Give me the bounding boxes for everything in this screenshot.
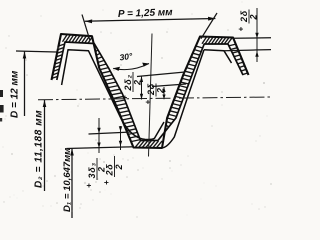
band inner boundary	[57, 42, 243, 141]
D1 dimension line	[71, 149, 73, 219]
fraction 2delta/2 (middle)	[144, 83, 166, 105]
svg-text:2δ: 2δ	[146, 83, 156, 96]
scan edge smudge 2	[0, 105, 4, 113]
D dimension line	[24, 52, 26, 117]
svg-text:3δ₃: 3δ₃	[87, 162, 97, 178]
fraction 2delta/2 (top right)	[237, 10, 259, 32]
V3 dimension line 2delta/2 (top right)	[256, 8, 258, 62]
centerline of groove	[149, 34, 153, 157]
D2 dimension line	[44, 100, 46, 191]
svg-text:+: +	[102, 180, 111, 185]
P right extension line (flank extension)	[201, 13, 217, 39]
line1: crest band top level extended right	[233, 37, 271, 39]
nominal thread profile	[62, 50, 164, 140]
thread profile tolerance band hatching	[52, 35, 248, 148]
VB dimension line 2delta/2	[163, 87, 165, 99]
30deg arc	[113, 64, 149, 70]
line2: nominal crest D level extended right	[224, 50, 271, 51]
line C (flank offset level, left of center)	[137, 72, 185, 77]
svg-text:2δ₂: 2δ₂	[123, 74, 133, 91]
svg-text:2δ: 2δ	[239, 10, 249, 23]
fraction 3delta3/2	[85, 158, 107, 188]
nominal right flank line	[163, 50, 204, 148]
line A: nominal root level extended left	[89, 132, 132, 134]
band outer boundary	[52, 34, 249, 148]
nominal crest of right tooth	[204, 50, 232, 63]
svg-text:+: +	[237, 27, 246, 32]
paper grain speckle	[2, 2, 272, 219]
line B: outer band root level extended left	[67, 147, 135, 149]
fraction 2delta/2 (bottom)	[102, 156, 124, 185]
svg-text:D₁ = 10,647мм: D₁ = 10,647мм	[62, 148, 73, 212]
svg-text:P = 1,25 мм: P = 1,25 мм	[118, 7, 174, 20]
scan edge smudge 1	[0, 90, 3, 97]
svg-text:2: 2	[156, 88, 166, 94]
V2 dimension line 2delta/2 (bottom)	[120, 126, 122, 150]
svg-text:2: 2	[133, 80, 143, 86]
svg-text:D₂ = 11,188 мм: D₂ = 11,188 мм	[34, 110, 45, 188]
D major-diameter level line (left)	[16, 51, 57, 52]
VA dimension line 2delta2/2	[141, 76, 143, 99]
svg-text:D = 12 мм: D = 12 мм	[10, 70, 21, 118]
svg-text:+: +	[144, 100, 153, 105]
line C' (flank offset level, right of center)	[152, 84, 186, 87]
svg-text:2δ: 2δ	[104, 163, 114, 176]
svg-text:30°: 30°	[119, 51, 134, 63]
scan edge smudge 3	[0, 118, 2, 122]
svg-text:+: +	[121, 95, 130, 100]
V1 dimension line 3delta3/2	[98, 118, 100, 153]
P left extension line (flank extension)	[82, 15, 90, 41]
svg-text:2: 2	[114, 164, 124, 170]
fraction 2delta2/2	[121, 72, 143, 100]
P dimension line	[85, 19, 216, 22]
svg-text:2: 2	[249, 14, 259, 20]
pitch-diameter dash-dot line	[38, 97, 271, 100]
